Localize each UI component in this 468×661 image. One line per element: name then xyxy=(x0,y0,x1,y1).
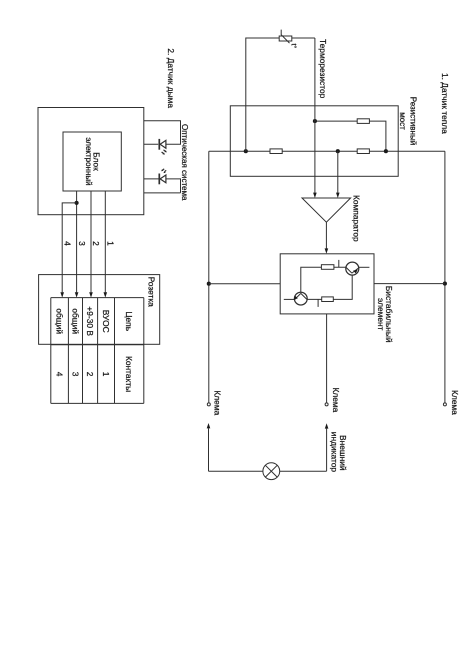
terminal Клема (bottom rail) xyxy=(207,403,210,406)
LED D1 emission arrows xyxy=(162,150,166,154)
wire bistable to bottom rail xyxy=(209,283,280,285)
wire Q1 base bar xyxy=(317,299,319,307)
svg-text:Контакты: Контакты xyxy=(124,356,134,392)
wire 2 xyxy=(90,191,92,292)
transistor Q1 internals xyxy=(295,293,307,299)
svg-text:Клема: Клема xyxy=(213,390,223,415)
node dot rail mid xyxy=(336,149,340,153)
svg-text:Резистивный: Резистивный xyxy=(409,97,418,145)
node top rail (Клема net) xyxy=(444,151,446,403)
svg-text:+9-30 В: +9-30 В xyxy=(85,306,95,336)
svg-text:Цепь: Цепь xyxy=(124,311,134,331)
wire Q2 collector to Q1 base chain corner xyxy=(307,275,352,299)
arrow indicator lower xyxy=(207,423,211,428)
svg-text:Терморезистор: Терморезистор xyxy=(318,39,328,99)
wire Q1 emitter lead xyxy=(284,298,295,300)
wire Q2 base bar xyxy=(338,260,340,267)
optical bracket left xyxy=(144,121,181,145)
svg-text:2: 2 xyxy=(91,241,101,246)
resistor R1 bridge lower xyxy=(270,149,282,154)
transistor Q2 internals xyxy=(346,268,359,274)
resistor R4 bistable upper xyxy=(321,265,334,270)
wire 4 xyxy=(62,203,76,293)
svg-text:ВУОС: ВУОС xyxy=(101,310,111,333)
svg-text:4: 4 xyxy=(55,372,65,377)
svg-text:общий: общий xyxy=(55,308,65,334)
wire bridge second arm xyxy=(315,121,386,151)
node dot wire4 branch xyxy=(75,201,79,205)
resistor R5 bistable lower xyxy=(322,297,334,302)
wire indicator lower stub xyxy=(208,428,210,471)
smoke sensor outer box xyxy=(38,108,144,215)
svg-text:элемент: элемент xyxy=(376,298,386,331)
svg-text:общий: общий xyxy=(71,308,81,334)
node dot arm top xyxy=(384,149,388,153)
wire 3 xyxy=(76,191,78,292)
svg-text:Розетка: Розетка xyxy=(146,277,156,308)
arrow wire 4 xyxy=(60,292,64,297)
terminal Клема (bistable output) xyxy=(325,403,328,406)
transistor Q1 circle xyxy=(294,292,307,305)
svg-text:1. Датчик тепла: 1. Датчик тепла xyxy=(440,73,450,134)
svg-text:t°: t° xyxy=(290,44,298,49)
arrow indicator upper xyxy=(325,423,329,428)
arrow wire 3 xyxy=(75,292,79,297)
photodiode D2 bar xyxy=(158,174,160,185)
wire bistable output xyxy=(326,314,328,403)
thermoresistor RK1 diagonal mark xyxy=(281,30,289,43)
lamp HL1 external indicator xyxy=(263,463,280,480)
wire bridge rail vertical xyxy=(209,150,445,152)
thermoresistor RK1 body xyxy=(279,36,292,41)
terminal Клема (top right rail) xyxy=(443,403,446,406)
bistable box Бистабильный элемент xyxy=(280,254,374,314)
node dot arm bottom xyxy=(313,119,317,123)
wire indicator upper stub xyxy=(326,429,328,472)
arrow input A xyxy=(313,193,317,198)
node junction dot top rail xyxy=(443,282,447,286)
arrow input B xyxy=(336,193,340,198)
connector table frame xyxy=(51,298,144,404)
op-amp comparator U1 xyxy=(302,198,351,222)
svg-text:1: 1 xyxy=(106,241,116,246)
svg-text:2. Датчик дыма: 2. Датчик дыма xyxy=(166,48,176,108)
wire bistable to top rail xyxy=(374,283,445,285)
wire comparator input B xyxy=(337,151,339,193)
LED D1 bar xyxy=(158,139,160,150)
svg-text:4: 4 xyxy=(62,241,72,246)
socket box Розетка xyxy=(39,275,160,345)
transistor Q2 circle xyxy=(346,262,359,275)
svg-text:Клема: Клема xyxy=(331,388,341,413)
wire thermistor arm xyxy=(246,38,315,151)
electronic block inner box xyxy=(63,132,121,191)
node junction dot bottom rail xyxy=(207,282,211,286)
wire Q2 emitter lead xyxy=(359,266,370,268)
svg-text:1: 1 xyxy=(101,372,111,377)
svg-text:3: 3 xyxy=(77,241,87,246)
arrow comparator output xyxy=(325,248,329,253)
node dot rail lower xyxy=(244,149,248,153)
svg-text:Клема: Клема xyxy=(450,390,460,415)
arrow wire 2 xyxy=(89,292,93,297)
resistor R2 bridge rail upper xyxy=(357,149,369,154)
svg-text:электронный: электронный xyxy=(84,137,93,185)
bridge box Резистивный мост xyxy=(230,106,398,177)
svg-text:индикатор: индикатор xyxy=(329,432,339,473)
svg-text:2: 2 xyxy=(85,372,95,377)
optical bracket right xyxy=(144,179,181,193)
photodiode D2 receiving arrows xyxy=(163,169,167,172)
LED D1 triangle xyxy=(160,140,166,148)
arrow wire 1 xyxy=(104,292,108,297)
resistor R3 bridge arm xyxy=(357,119,369,124)
svg-text:Оптическая система: Оптическая система xyxy=(180,124,189,201)
svg-text:Компаратор: Компаратор xyxy=(352,195,362,242)
node bottom rail xyxy=(208,151,210,403)
svg-text:мост: мост xyxy=(398,112,407,130)
photodiode D2 triangle xyxy=(160,175,166,183)
svg-text:3: 3 xyxy=(71,372,81,377)
wire comparator input A xyxy=(314,38,316,194)
wire Q2 base chain to Q1 collector xyxy=(301,267,346,292)
wire indicator loop xyxy=(209,470,327,472)
wire 1 xyxy=(104,191,106,292)
wire comparator output xyxy=(325,222,327,249)
